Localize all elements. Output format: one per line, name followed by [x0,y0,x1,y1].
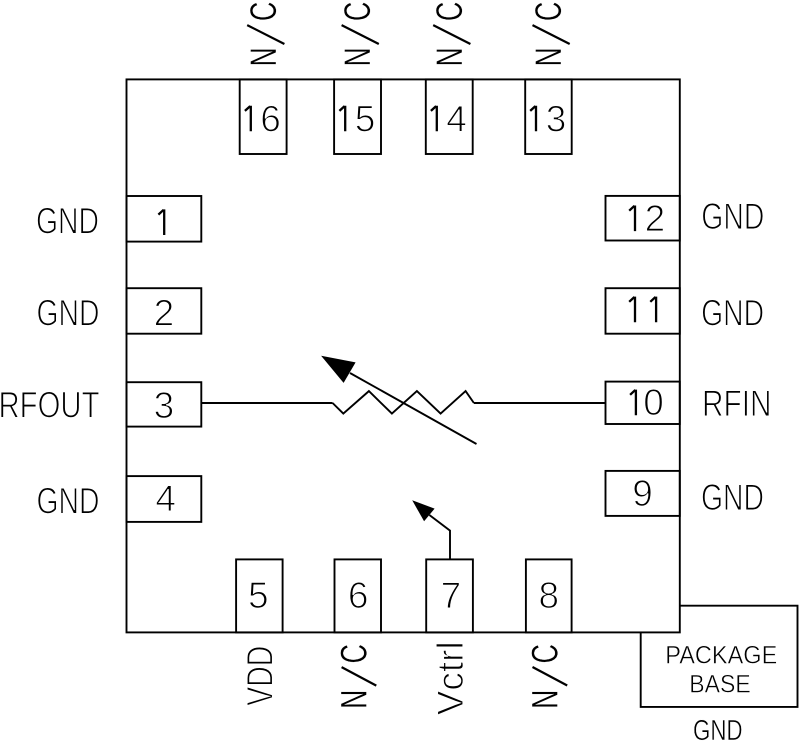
pin 16 box [240,79,287,154]
pin 3 box [127,382,202,426]
wire pin 3 to resistor [201,402,332,404]
pin 12 box [606,196,680,241]
pin 11 box [606,288,680,334]
svg-text:C: C [429,2,470,22]
svg-text:7: 7 [441,575,462,616]
resistor zigzag (variable attenuator) [333,391,474,414]
svg-text:9: 9 [632,473,653,514]
pin 13 box [525,79,572,154]
svg-text:3: 3 [546,98,567,139]
N/C label pin 15 [337,2,379,67]
svg-text:RFIN: RFIN [702,383,772,424]
pin 1 number [158,209,164,235]
svg-text:2: 2 [645,198,666,239]
pin 10 box [606,382,680,424]
pin 4 box [127,476,202,522]
svg-text:VDD: VDD [239,646,280,706]
pin 11 number [629,297,656,323]
pin 7 box [426,559,473,632]
Vctrl arrow wire from pin 7 [429,515,450,559]
svg-text:2: 2 [154,293,175,334]
svg-text:5: 5 [355,98,376,139]
svg-text:Vctrl: Vctrl [430,641,471,715]
svg-text:GND: GND [701,196,764,237]
pin 12 number [629,198,665,239]
svg-text:GND: GND [693,715,743,742]
svg-text:0: 0 [643,382,664,423]
svg-text:N: N [525,690,566,709]
N/C label pin 16 [243,2,285,67]
svg-text:6: 6 [348,575,369,616]
package outline [127,79,680,632]
pin 14 number [431,98,467,139]
pin 13 number [530,98,566,139]
pin 15 box [334,79,381,154]
svg-text:8: 8 [539,575,560,616]
pin 9 box [606,471,680,516]
pin 15 number [339,98,375,139]
svg-text:GND: GND [36,201,99,242]
svg-text:BASE: BASE [689,670,751,698]
svg-text:GND: GND [37,293,100,334]
svg-text:C: C [528,2,569,22]
svg-text:RFOUT: RFOUT [0,385,100,426]
svg-text:6: 6 [260,98,281,139]
pin 2 box [127,288,202,334]
pin 8 box [526,559,572,632]
N/C label pin 14 [429,2,471,67]
svg-text:C: C [525,644,566,664]
attenuator arrow shaft [350,373,477,444]
svg-text:GND: GND [701,477,764,518]
svg-text:N: N [528,47,569,66]
svg-text:GND: GND [701,293,764,334]
N/C label pin 13 [528,2,570,67]
svg-text:4: 4 [446,98,467,139]
svg-text:GND: GND [37,481,100,522]
svg-text:PACKAGE: PACKAGE [665,641,777,669]
N/C label pin 8 [525,644,568,709]
pin 1 box [127,196,202,242]
pin 6 box [335,559,382,632]
svg-text:C: C [243,2,284,22]
svg-text:3: 3 [154,385,175,426]
wire resistor to pin 10 [474,402,606,404]
package base box [641,606,798,707]
attenuator arrowhead [321,356,356,383]
pin 5 box [236,559,283,632]
svg-text:5: 5 [248,575,269,616]
pin 10 number [630,382,664,423]
pin 16 number [245,98,281,139]
N/C label pin 6 [334,644,377,709]
pin 14 box [426,79,473,154]
svg-text:C: C [337,2,378,22]
svg-text:N: N [243,47,284,66]
Vctrl arrowhead [412,500,434,521]
svg-text:N: N [429,47,470,66]
svg-text:N: N [334,690,375,709]
svg-text:4: 4 [155,478,176,519]
svg-text:N: N [337,47,378,66]
svg-text:C: C [334,644,375,664]
